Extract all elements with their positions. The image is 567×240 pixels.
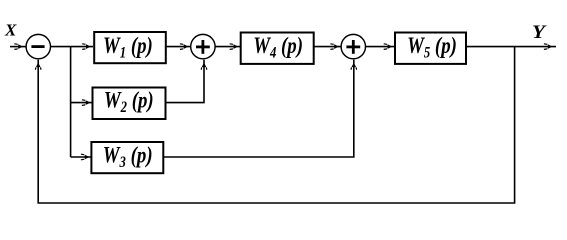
svg-text:W1 (p): W1 (p) <box>103 32 153 62</box>
arrowhead at output Y <box>544 44 553 50</box>
arrowhead into W1 <box>82 44 91 50</box>
wire W2 output up into S2 bottom <box>166 60 205 103</box>
svg-text:W2 (p): W2 (p) <box>104 87 154 117</box>
svg-text:Y: Y <box>532 22 547 43</box>
summing junction S3 (plus) <box>341 34 365 58</box>
arrowhead up into S3 <box>351 63 357 70</box>
block W3 <box>91 142 163 173</box>
block W1 <box>94 32 166 63</box>
summing junction S2 (plus) <box>191 34 215 58</box>
plus sign of S3 <box>346 40 360 54</box>
feedback wire from output node down along bottom and up into S1 <box>38 47 514 203</box>
wire W4 output to summing junction S3 <box>314 46 341 48</box>
wire W3 output up into S3 bottom <box>163 60 353 157</box>
block W5 <box>395 32 466 64</box>
wire S2 output to W4 input <box>215 46 240 48</box>
minus sign of S1 <box>31 45 44 48</box>
arrowhead into W4 <box>230 44 239 50</box>
svg-text:X: X <box>4 20 17 39</box>
wire branch to W2 input <box>71 102 93 104</box>
arrowhead into summing junction S1 <box>14 44 23 50</box>
arrowhead into W2 <box>82 100 91 106</box>
wire S1 output to W1 input <box>51 46 93 48</box>
wire branch to W3 input <box>71 156 92 158</box>
arrowhead up into S1 <box>35 63 41 70</box>
wire S3 output to W5 input <box>366 46 394 48</box>
wire W1 output to summing junction S2 <box>166 46 190 48</box>
arrowhead up into S2 <box>201 63 207 70</box>
node branch wire down to W2 and W3 <box>70 47 72 157</box>
block W4 <box>241 32 314 64</box>
block W2 <box>93 87 166 119</box>
svg-text:W3 (p): W3 (p) <box>103 142 153 172</box>
svg-text:W5 (p): W5 (p) <box>407 32 457 62</box>
summing junction S1 (minus) <box>26 34 50 58</box>
wire W5 output to Y <box>466 46 556 48</box>
arrowhead into W3 <box>81 154 90 160</box>
plus sign of S2 <box>196 40 210 54</box>
arrowhead into W5 <box>384 44 393 50</box>
svg-text:W4 (p): W4 (p) <box>253 32 303 62</box>
arrowhead into S3 <box>330 44 339 50</box>
arrowhead into S2 <box>180 44 189 50</box>
wire input into summing junction S1 <box>10 46 26 48</box>
